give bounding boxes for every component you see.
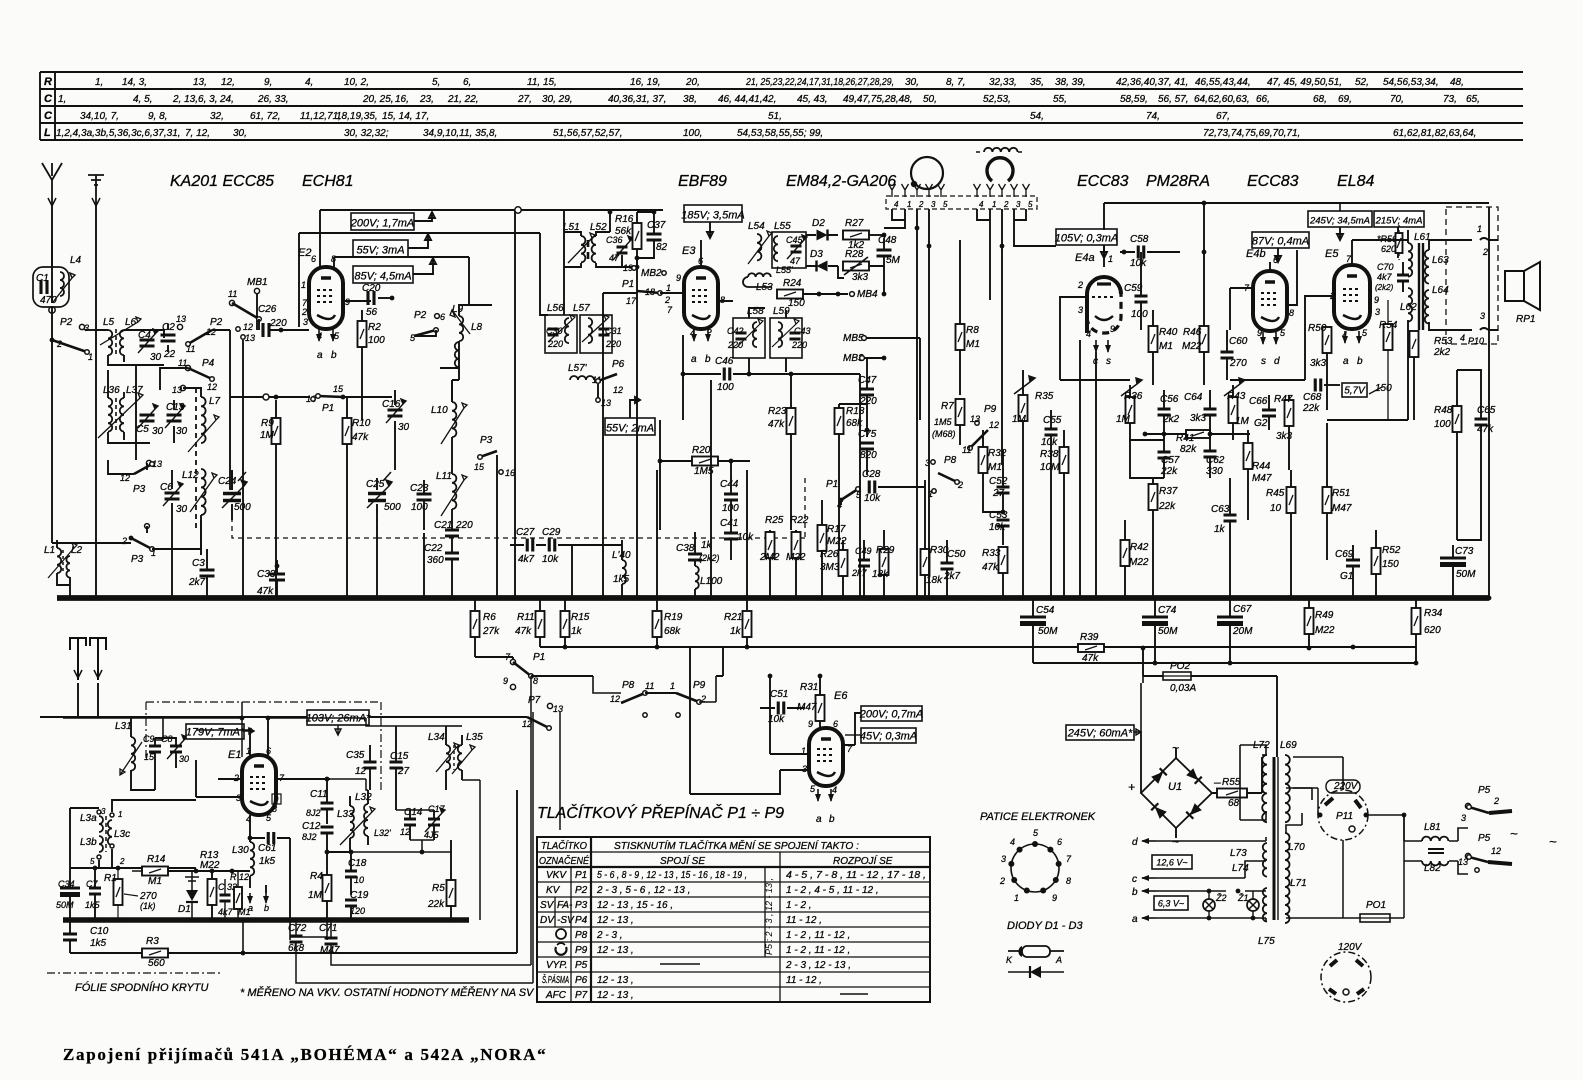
svg-text:VYP.: VYP. bbox=[546, 960, 568, 971]
callout 185V 3.5mA bbox=[684, 205, 742, 222]
svg-text:C20: C20 bbox=[362, 283, 381, 294]
tube socket connector strip bbox=[886, 196, 1037, 209]
svg-text:L74: L74 bbox=[1232, 863, 1249, 874]
svg-text:Ž1: Ž1 bbox=[1237, 893, 1249, 903]
wire P3 row bbox=[52, 330, 201, 549]
svg-text:12: 12 bbox=[1491, 846, 1501, 856]
node antenna junction bbox=[49, 307, 55, 313]
svg-text:R30: R30 bbox=[930, 545, 949, 556]
svg-text:27k: 27k bbox=[482, 626, 500, 637]
wire right region verticals bbox=[1488, 207, 1490, 598]
svg-text:P3: P3 bbox=[133, 484, 146, 495]
svg-text:R53: R53 bbox=[1434, 336, 1453, 347]
svg-text:50M: 50M bbox=[1038, 626, 1058, 637]
main ground bus bbox=[57, 595, 1489, 601]
svg-text:48,: 48, bbox=[1450, 77, 1464, 88]
svg-text:3: 3 bbox=[1001, 854, 1006, 864]
svg-text:L69: L69 bbox=[1280, 740, 1297, 751]
wire x230 down bbox=[230, 330, 232, 490]
capacitor C1 470 with coil L4 box bbox=[33, 267, 69, 307]
svg-text:15: 15 bbox=[474, 462, 485, 472]
svg-text:C44: C44 bbox=[720, 479, 739, 490]
svg-text:11,12,71,: 11,12,71, bbox=[300, 111, 341, 122]
resistor R12 M1 bbox=[234, 887, 242, 909]
svg-text:4: 4 bbox=[832, 785, 837, 795]
bridge diode bottom-left bbox=[1151, 803, 1167, 819]
svg-text:R37: R37 bbox=[1159, 486, 1178, 497]
svg-text:30, 32,32;: 30, 32,32; bbox=[344, 128, 389, 139]
svg-text:30: 30 bbox=[176, 504, 188, 515]
svg-text:C52: C52 bbox=[989, 476, 1008, 487]
wire supply rail y233 bbox=[299, 233, 548, 327]
wire PO2 to transformer bbox=[1191, 676, 1277, 757]
resistor R27 1k2 bbox=[843, 231, 869, 240]
svg-text:12 - 13 , 15 - 16 ,: 12 - 13 , 15 - 16 , bbox=[597, 900, 673, 911]
wire E4b plate to C60 bbox=[1287, 250, 1297, 305]
wire x515 vertical to bus bbox=[514, 210, 516, 598]
potentiometer R35 1M bbox=[1019, 395, 1028, 421]
svg-text:13,: 13, bbox=[193, 77, 207, 88]
svg-text:M47: M47 bbox=[1332, 503, 1352, 514]
wire E3 grid row bbox=[603, 292, 684, 294]
wire x452 column bbox=[451, 380, 453, 402]
wire R36 bottom join bbox=[1130, 440, 1164, 478]
tube E6 EM84 bbox=[809, 728, 843, 786]
svg-text:+: + bbox=[1128, 780, 1135, 794]
wire PO1 row bbox=[1286, 815, 1404, 918]
svg-text:18k: 18k bbox=[872, 569, 889, 580]
svg-text:DIODY D1 - D3: DIODY D1 - D3 bbox=[1007, 920, 1083, 932]
wire L58/L59 to E3 bbox=[719, 301, 786, 372]
resistor R24 150 bbox=[777, 290, 803, 299]
svg-text:R7: R7 bbox=[941, 401, 954, 412]
callout 179V 7mA* bbox=[186, 724, 244, 739]
svg-text:1k5: 1k5 bbox=[259, 856, 276, 867]
svg-text:14, 3,: 14, 3, bbox=[122, 77, 147, 88]
svg-text:5,: 5, bbox=[432, 77, 440, 88]
callout 105V 0.3mA bbox=[1056, 229, 1117, 245]
svg-text:245V; 60mA*: 245V; 60mA* bbox=[1067, 728, 1133, 740]
svg-text:1: 1 bbox=[88, 352, 93, 362]
bridge diode top-left bbox=[1151, 768, 1167, 784]
svg-text:4: 4 bbox=[979, 200, 984, 209]
svg-text:100,: 100, bbox=[683, 128, 702, 139]
svg-text:1: 1 bbox=[1014, 893, 1019, 903]
FM bus (thick) bbox=[63, 917, 469, 923]
svg-text:R1: R1 bbox=[104, 873, 117, 884]
tube E1 ECC85 bbox=[242, 755, 276, 815]
wire FM block rails bbox=[155, 718, 163, 740]
svg-text:12 - 13 ,: 12 - 13 , bbox=[597, 975, 634, 986]
svg-text:P2: P2 bbox=[60, 317, 73, 328]
svg-text:VKV: VKV bbox=[546, 870, 567, 881]
svg-text:C3: C3 bbox=[192, 558, 205, 569]
svg-text:61, 72,: 61, 72, bbox=[250, 111, 281, 122]
node 12 13 circles bbox=[236, 327, 240, 331]
resistor R29 18k bbox=[880, 549, 889, 575]
svg-text:42,36,40,37, 41,: 42,36,40,37, 41, bbox=[1116, 77, 1188, 88]
svg-text:2 - 3 , 12 - 13 ,: 2 - 3 , 12 - 13 , bbox=[785, 960, 851, 971]
resistor R49 M22 bbox=[1305, 608, 1314, 634]
svg-text:12,6 V~: 12,6 V~ bbox=[1156, 858, 1187, 868]
resistor R41 82k bbox=[1186, 430, 1210, 438]
svg-text:TLAČÍTKO: TLAČÍTKO bbox=[541, 839, 587, 852]
svg-text:1: 1 bbox=[907, 200, 911, 209]
svg-text:54,53,58,55,55; 99,: 54,53,58,55,55; 99, bbox=[737, 128, 823, 139]
svg-text:C38: C38 bbox=[676, 543, 695, 554]
svg-text:E2: E2 bbox=[298, 247, 311, 259]
svg-text:1,: 1, bbox=[58, 94, 66, 105]
svg-text:12 - 13 ,: 12 - 13 , bbox=[597, 915, 634, 926]
switch P3 upper bbox=[146, 460, 151, 465]
svg-text:D2: D2 bbox=[812, 218, 825, 229]
svg-text:D1: D1 bbox=[178, 904, 191, 915]
svg-text:b: b bbox=[1132, 887, 1138, 898]
svg-text:12: 12 bbox=[400, 827, 410, 837]
svg-text:C72: C72 bbox=[288, 923, 307, 934]
svg-text:2k2: 2k2 bbox=[1433, 347, 1451, 358]
svg-text:13: 13 bbox=[245, 333, 255, 343]
svg-text:22k: 22k bbox=[1302, 403, 1320, 414]
resistor R6 27k bbox=[471, 611, 480, 637]
wire L12 to bus bbox=[200, 515, 202, 555]
potentiometer R43 1M bbox=[1229, 397, 1238, 423]
resistor R37 22k bbox=[1149, 484, 1158, 510]
svg-text:56: 56 bbox=[366, 307, 378, 318]
svg-text:100: 100 bbox=[1131, 309, 1148, 320]
svg-text:2: 2 bbox=[1482, 247, 1488, 257]
svg-text:M1: M1 bbox=[148, 876, 162, 887]
svg-text:9: 9 bbox=[808, 719, 813, 729]
svg-text:1: 1 bbox=[1477, 224, 1482, 234]
svg-text:38,: 38, bbox=[683, 94, 697, 105]
svg-text:L57': L57' bbox=[568, 363, 588, 374]
callout 215V 4mA bbox=[1374, 211, 1424, 227]
svg-text:87V; 0,4mA: 87V; 0,4mA bbox=[1252, 236, 1309, 248]
svg-text:R22: R22 bbox=[790, 515, 809, 526]
wire C33 stub bbox=[276, 560, 278, 598]
wire L5/L6 frame bbox=[96, 330, 164, 365]
svg-text:R3: R3 bbox=[146, 936, 159, 947]
svg-text:20M: 20M bbox=[1232, 626, 1253, 637]
svg-text:MB4: MB4 bbox=[857, 289, 878, 300]
svg-text:M47: M47 bbox=[797, 702, 817, 713]
wire secondary to P11 bbox=[1286, 788, 1312, 833]
svg-text:13: 13 bbox=[553, 704, 563, 714]
svg-text:56k: 56k bbox=[615, 226, 632, 237]
svg-text:16, 19,: 16, 19, bbox=[630, 77, 661, 88]
svg-text:R14: R14 bbox=[147, 854, 166, 865]
svg-text:47k: 47k bbox=[515, 626, 532, 637]
svg-text:MB1: MB1 bbox=[247, 277, 268, 288]
svg-text:c: c bbox=[1132, 874, 1137, 885]
svg-text:E5: E5 bbox=[1325, 248, 1339, 260]
svg-text:L71: L71 bbox=[1290, 878, 1307, 889]
svg-text:C74: C74 bbox=[1158, 605, 1177, 616]
svg-text:L54: L54 bbox=[748, 221, 765, 232]
svg-text:46, 44,41,42,: 46, 44,41,42, bbox=[718, 94, 776, 105]
wire ground down to bus bbox=[95, 205, 97, 598]
wire R3 rail bbox=[70, 790, 517, 953]
svg-text:9: 9 bbox=[1257, 328, 1262, 338]
antenna symbol bbox=[42, 163, 62, 205]
tube E3 EBF89 bbox=[684, 267, 718, 329]
svg-text:L55': L55' bbox=[776, 265, 793, 275]
svg-text:C64: C64 bbox=[1184, 392, 1203, 403]
svg-text:54,: 54, bbox=[1030, 111, 1044, 122]
resistor R28 3k3 bbox=[843, 262, 869, 271]
wire transformer stubs bbox=[1240, 745, 1266, 820]
svg-text:30: 30 bbox=[150, 352, 162, 363]
svg-text:1k5: 1k5 bbox=[613, 574, 630, 585]
callout 6.3V bbox=[1154, 896, 1188, 910]
svg-text:L70: L70 bbox=[1288, 842, 1305, 853]
svg-text:FA-: FA- bbox=[557, 900, 573, 911]
svg-text:105V; 0,3mA: 105V; 0,3mA bbox=[1055, 233, 1118, 245]
callout 85V 4.5mA bbox=[353, 266, 413, 283]
wire FM left verticals bbox=[69, 868, 71, 920]
svg-text:L7: L7 bbox=[209, 396, 221, 407]
svg-text:3: 3 bbox=[1078, 305, 1083, 315]
svg-text:2: 2 bbox=[918, 200, 924, 209]
svg-text:P11: P11 bbox=[1336, 811, 1353, 822]
svg-text:47k: 47k bbox=[1477, 424, 1494, 435]
svg-text:24,: 24, bbox=[219, 94, 234, 105]
diode symbol drawing bbox=[1030, 966, 1041, 978]
svg-text:21, 25,23,22,24,17,31,18,26,27: 21, 25,23,22,24,17,31,18,26,27,28,29, bbox=[745, 77, 894, 88]
svg-text:R4: R4 bbox=[310, 871, 323, 882]
svg-text:P1: P1 bbox=[533, 652, 545, 663]
svg-text:100: 100 bbox=[368, 335, 385, 346]
callout 55V 2mA bbox=[605, 418, 655, 435]
svg-text:R18: R18 bbox=[846, 406, 865, 417]
svg-text:G1: G1 bbox=[1340, 571, 1353, 582]
svg-text:500: 500 bbox=[384, 502, 401, 513]
svg-text:8: 8 bbox=[720, 295, 725, 305]
resistor R45 10 bbox=[1287, 487, 1296, 513]
dash-dot FM unit outline bbox=[146, 702, 381, 790]
svg-text:C63: C63 bbox=[1211, 504, 1230, 515]
tube E4b ECC83 half bbox=[1253, 271, 1287, 331]
svg-text:10k: 10k bbox=[864, 493, 881, 504]
svg-text:L12: L12 bbox=[182, 470, 199, 481]
svg-text:3k3: 3k3 bbox=[1310, 358, 1327, 369]
wire dipole down bbox=[78, 683, 98, 718]
resistor R40 M1 bbox=[1149, 326, 1158, 352]
svg-text:1 - 2 ,: 1 - 2 , bbox=[786, 900, 812, 911]
svg-text:P2: P2 bbox=[414, 310, 427, 321]
svg-text:12 - 13 ,: 12 - 13 , bbox=[597, 945, 634, 956]
svg-text:L31: L31 bbox=[115, 721, 132, 732]
svg-text:ECH81: ECH81 bbox=[302, 173, 354, 190]
callout 200V 1.7mA bbox=[351, 213, 414, 230]
svg-text:100: 100 bbox=[411, 502, 428, 513]
svg-text:150: 150 bbox=[1375, 383, 1392, 394]
svg-text:C1: C1 bbox=[36, 273, 49, 284]
lamp Z2 bbox=[1203, 899, 1215, 911]
resistor R53 2k2 bbox=[1410, 331, 1419, 357]
wire L9/L8 connections bbox=[414, 305, 492, 368]
svg-text:1: 1 bbox=[118, 810, 122, 819]
svg-text:16: 16 bbox=[505, 468, 515, 478]
svg-text:C: C bbox=[44, 110, 53, 122]
svg-text:8, 7,: 8, 7, bbox=[946, 77, 965, 88]
svg-text:P5: P5 bbox=[575, 960, 588, 971]
svg-text:3: 3 bbox=[303, 317, 308, 327]
svg-text:R6: R6 bbox=[483, 612, 496, 623]
svg-text:6: 6 bbox=[1057, 837, 1062, 847]
wire E1 pin leads bbox=[250, 718, 268, 757]
svg-text:120: 120 bbox=[350, 906, 365, 916]
svg-text:R48: R48 bbox=[1434, 405, 1453, 416]
svg-text:12: 12 bbox=[243, 322, 253, 332]
svg-text:R52: R52 bbox=[1382, 545, 1401, 556]
svg-text:R46: R46 bbox=[1183, 327, 1202, 338]
svg-text:L11: L11 bbox=[436, 471, 452, 482]
resistor R10 47k bbox=[343, 418, 352, 444]
svg-text:5: 5 bbox=[943, 200, 948, 209]
svg-text:70,: 70, bbox=[1390, 94, 1404, 105]
svg-text:R47: R47 bbox=[1274, 394, 1293, 405]
resistor R50 3k3 bbox=[1323, 327, 1332, 353]
svg-text:R55: R55 bbox=[1222, 777, 1241, 788]
tube E3 pin leads bbox=[700, 240, 702, 267]
wire x683 down bbox=[682, 335, 684, 420]
callout 5.7V bbox=[1342, 383, 1367, 397]
wire rail y868 bbox=[70, 867, 196, 869]
svg-text:C24: C24 bbox=[218, 476, 237, 487]
svg-text:10: 10 bbox=[1270, 503, 1282, 514]
svg-text:L57: L57 bbox=[573, 303, 590, 314]
svg-text:L30: L30 bbox=[232, 845, 249, 856]
wire L10 vertical bbox=[452, 368, 459, 474]
svg-text:s: s bbox=[1261, 356, 1266, 367]
svg-text:4: 4 bbox=[1086, 329, 1091, 339]
svg-text:65,: 65, bbox=[1466, 94, 1480, 105]
resistor R4 1M bbox=[323, 875, 332, 901]
svg-text:C42: C42 bbox=[727, 326, 744, 336]
svg-text:C16: C16 bbox=[382, 399, 401, 410]
svg-text:27,: 27, bbox=[517, 94, 532, 105]
svg-text:M22: M22 bbox=[1129, 557, 1149, 568]
svg-text:2: 2 bbox=[301, 307, 307, 317]
svg-text:MB5: MB5 bbox=[843, 333, 864, 344]
svg-text:22k: 22k bbox=[1158, 501, 1176, 512]
svg-text:L56: L56 bbox=[547, 303, 564, 314]
svg-text:55V; 3mA: 55V; 3mA bbox=[356, 245, 404, 257]
wire top rail right bbox=[1103, 203, 1105, 230]
svg-text:P8: P8 bbox=[622, 680, 635, 691]
svg-text:M22: M22 bbox=[1182, 341, 1202, 352]
svg-text:8: 8 bbox=[1289, 308, 1294, 318]
resistor R33 47k bbox=[999, 547, 1008, 573]
svg-text:68k: 68k bbox=[664, 626, 681, 637]
svg-text:a: a bbox=[691, 354, 697, 365]
svg-text:C11: C11 bbox=[310, 789, 328, 800]
wire L3 connections bbox=[70, 800, 196, 868]
svg-text:P8: P8 bbox=[944, 455, 957, 466]
svg-text:23,: 23, bbox=[419, 94, 434, 105]
svg-text:C46: C46 bbox=[715, 356, 734, 367]
svg-text:R5: R5 bbox=[432, 883, 445, 894]
svg-text:R21: R21 bbox=[724, 612, 742, 623]
svg-text:P4: P4 bbox=[575, 915, 588, 926]
svg-text:P7: P7 bbox=[528, 695, 541, 706]
svg-text:1 - 2 , 11 - 12 ,: 1 - 2 , 11 - 12 , bbox=[786, 945, 850, 956]
tube E2 pin leads bbox=[320, 210, 334, 267]
svg-text:52,: 52, bbox=[1355, 77, 1369, 88]
svg-text:9, 8,: 9, 8, bbox=[148, 111, 167, 122]
svg-text:R25: R25 bbox=[765, 515, 784, 526]
svg-text:47k: 47k bbox=[982, 562, 999, 573]
svg-text:1,2,4,3a,3b,5,36,3c,6,37,31,: 1,2,4,3a,3b,5,36,3c,6,37,31, bbox=[56, 128, 181, 139]
svg-text:220: 220 bbox=[791, 340, 807, 350]
resistor R7 1M5 (M68) bbox=[956, 399, 965, 425]
svg-text:45V; 0,3mA: 45V; 0,3mA bbox=[860, 731, 917, 743]
bridge diode top-right bbox=[1186, 768, 1202, 784]
callout 45V 0.3mA bbox=[861, 728, 916, 743]
svg-text:3: 3 bbox=[101, 807, 106, 816]
resistor R52 150 bbox=[1372, 548, 1381, 574]
svg-text:22k: 22k bbox=[427, 899, 445, 910]
svg-text:18: 18 bbox=[645, 287, 655, 297]
svg-text:620: 620 bbox=[1424, 625, 1441, 636]
svg-text:5 - 6 , 8 - 9 , 12 - 13 , 15: 5 - 6 , 8 - 9 , 12 - 13 , 15 - 16 , 18 -… bbox=[597, 870, 747, 881]
svg-text:220: 220 bbox=[455, 520, 473, 531]
resistor R3 560 bbox=[142, 949, 168, 958]
svg-text:220: 220 bbox=[727, 340, 743, 350]
svg-text:12: 12 bbox=[610, 694, 620, 704]
bridge rectifier U1 bbox=[1141, 758, 1212, 828]
svg-text:R26: R26 bbox=[820, 549, 839, 560]
svg-text:55,: 55, bbox=[1053, 94, 1067, 105]
svg-text:-SV: -SV bbox=[557, 915, 575, 926]
wires from connector pins down bbox=[884, 209, 905, 228]
diode package drawing bbox=[1022, 946, 1050, 957]
svg-text:EBF89: EBF89 bbox=[678, 173, 727, 190]
svg-text:12: 12 bbox=[613, 385, 623, 395]
node MB4 bbox=[850, 292, 855, 297]
svg-text:L36: L36 bbox=[103, 385, 120, 396]
svg-text:R10: R10 bbox=[352, 418, 371, 429]
resistor R34 620 bbox=[1412, 608, 1421, 634]
wire x497 L7 dash to bus bbox=[496, 455, 498, 598]
svg-text:12,: 12, bbox=[221, 77, 235, 88]
svg-text:KV: KV bbox=[546, 885, 561, 896]
wire L31 block bbox=[131, 718, 176, 790]
svg-text:L73: L73 bbox=[1230, 848, 1247, 859]
svg-text:26, 33,: 26, 33, bbox=[257, 94, 289, 105]
wire L36/L37 frame bbox=[108, 370, 150, 443]
wire C12 L33 bottom rail bbox=[327, 851, 351, 853]
capacitor C16 30 trimmer bbox=[388, 410, 403, 416]
svg-text:(2k2): (2k2) bbox=[1375, 283, 1394, 292]
svg-text:17: 17 bbox=[626, 296, 637, 306]
wire E5 grid left bbox=[1305, 296, 1334, 380]
wire vertical x147 P3 bbox=[146, 463, 148, 533]
svg-text:4 - 5 , 7 - 8 , 11 - 12 , 1: 4 - 5 , 7 - 8 , 11 - 12 , 17 - 18 , bbox=[786, 870, 926, 881]
svg-text:C69: C69 bbox=[1335, 549, 1354, 560]
svg-text:38, 39,: 38, 39, bbox=[1055, 77, 1086, 88]
svg-text:47k: 47k bbox=[352, 432, 369, 443]
svg-text:M22: M22 bbox=[1315, 625, 1335, 636]
svg-text:9: 9 bbox=[1374, 295, 1379, 305]
svg-text:P1: P1 bbox=[575, 870, 587, 881]
wire E6 connections bbox=[690, 647, 809, 794]
svg-text:C56: C56 bbox=[1160, 394, 1179, 405]
svg-text:E6: E6 bbox=[834, 690, 848, 702]
svg-text:C66: C66 bbox=[1249, 396, 1268, 407]
